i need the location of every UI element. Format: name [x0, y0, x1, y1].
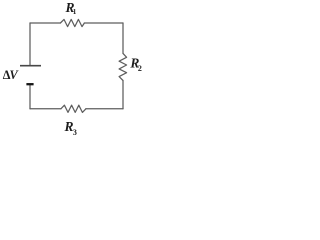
label deltaV: [3, 68, 20, 82]
label R3: [64, 119, 77, 137]
svg-text:V: V: [10, 68, 20, 82]
battery positive plate (long): [20, 65, 41, 67]
wire right lower vertical: [122, 81, 124, 109]
wire left lower vertical: [29, 85, 31, 108]
resistor R3: [61, 105, 86, 112]
wire right upper vertical: [122, 23, 124, 53]
resistor R1: [60, 19, 84, 26]
wire bottom-left horizontal: [30, 108, 61, 110]
label R2: [129, 55, 142, 73]
svg-text:1: 1: [73, 8, 77, 16]
wire left upper vertical: [29, 23, 31, 65]
resistor R2: [119, 53, 127, 80]
wire top-right horizontal: [84, 22, 123, 24]
svg-text:2: 2: [138, 64, 142, 73]
svg-text:3: 3: [73, 128, 77, 137]
wire bottom-right horizontal: [86, 108, 123, 110]
wire top-left horizontal: [30, 22, 60, 24]
battery negative plate (short thick): [26, 83, 33, 85]
label R1: [65, 0, 77, 16]
